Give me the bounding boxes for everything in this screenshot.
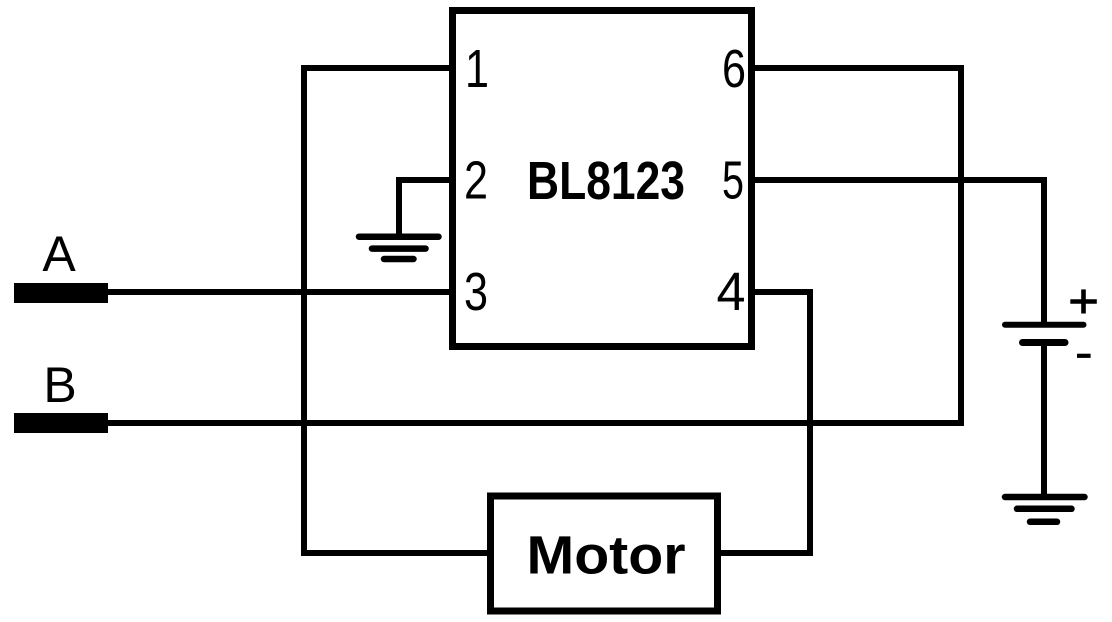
battery BT1 minus plate — [1023, 339, 1066, 346]
wire motor right — [714, 550, 813, 556]
wire pin1 vertical bus x=304 — [301, 65, 307, 556]
wire pin5 horizontal — [748, 177, 1047, 183]
wire pin1 horizontal — [304, 65, 456, 71]
svg-text:A: A — [42, 226, 76, 282]
ground G1 bar1 — [359, 233, 439, 240]
svg-text:3: 3 — [464, 262, 488, 322]
wire pin4 horizontal — [748, 289, 813, 295]
svg-text:1: 1 — [465, 39, 489, 99]
battery BT1 minus label — [1077, 354, 1091, 358]
wire pin2 horizontal — [399, 177, 456, 183]
wire battery to ground — [1041, 343, 1047, 500]
svg-text:2: 2 — [464, 151, 488, 211]
svg-text:B: B — [43, 357, 76, 413]
ground G2 bar1 — [1005, 494, 1085, 501]
svg-text:6: 6 — [722, 39, 746, 99]
svg-text:4: 4 — [717, 262, 746, 322]
ground G2 bar3 — [1030, 519, 1057, 526]
wire A to pin3 — [100, 289, 456, 295]
ground G1 bar2 — [372, 245, 426, 252]
terminal A bar — [14, 283, 108, 303]
svg-text:BL8123: BL8123 — [527, 151, 685, 211]
IC U1 box — [453, 11, 752, 347]
battery BT1 plus plate — [1005, 322, 1084, 328]
wire pin4 vertical x=810 — [807, 289, 813, 556]
wire pin6 vertical x=961 — [958, 65, 964, 426]
wire pin2 ground drop — [396, 177, 402, 239]
svg-text:5: 5 — [722, 151, 744, 211]
wire motor left — [301, 550, 494, 556]
wire pin6 horizontal — [748, 65, 964, 71]
wire B horizontal — [100, 420, 964, 426]
svg-text:Motor: Motor — [527, 526, 686, 586]
battery BT1 plus label — [1070, 289, 1097, 313]
terminal B bar — [14, 413, 108, 433]
ground G2 bar2 — [1017, 506, 1072, 513]
wire pin5 vertical to battery — [1041, 177, 1047, 325]
motor M1 box — [491, 496, 718, 611]
ground G1 bar3 — [384, 256, 414, 263]
